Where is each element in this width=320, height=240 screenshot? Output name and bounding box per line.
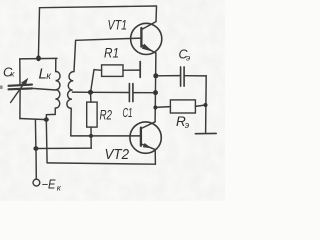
node base line crossing bbox=[89, 134, 93, 138]
wire lower plate to coil tap bbox=[32, 88, 56, 90]
wire Re right lead bbox=[195, 105, 205, 106]
svg-text:R2: R2 bbox=[100, 108, 113, 123]
wire Re left lead bbox=[155, 106, 170, 109]
wire C1 to emitter line bbox=[133, 92, 155, 94]
node Re left bbox=[153, 106, 157, 110]
wire tank left lower bbox=[19, 89, 21, 119]
wire VT2 base bbox=[71, 135, 141, 137]
wire right rail bbox=[205, 76, 208, 133]
svg-text:C1: C1 bbox=[123, 106, 133, 120]
capacitor bar at emitter line bbox=[139, 62, 141, 78]
wire Ce to right rail bbox=[185, 75, 207, 77]
capacitor Ck lower plate bbox=[9, 87, 33, 90]
wire bottom rail bbox=[47, 163, 155, 164]
inductor feedback winding bbox=[67, 40, 76, 136]
node C1 right bbox=[153, 90, 158, 95]
wire tank bottom bbox=[20, 119, 46, 120]
wire R1 right lead bbox=[123, 69, 140, 71]
transistor VT1 bbox=[131, 23, 162, 54]
capacitor C1 plates bbox=[128, 84, 130, 102]
arrow of variable capacitor bbox=[11, 81, 26, 102]
wire winding tap to node bbox=[72, 91, 90, 93]
wire R2 bottom lead bbox=[90, 127, 92, 148]
node -Ek rail bbox=[33, 146, 38, 151]
capacitor Ck upper plate bbox=[9, 85, 33, 86]
terminal -Ek bbox=[33, 179, 40, 186]
wire left drop from top bbox=[38, 8, 39, 59]
svg-text:R1: R1 bbox=[104, 46, 119, 61]
capacitor Ce plates bbox=[180, 67, 182, 86]
wire tank top bbox=[20, 57, 57, 60]
wire tank left upper bbox=[19, 59, 21, 85]
wire VT1 base bbox=[76, 38, 141, 40]
inductor Lk bbox=[46, 59, 60, 120]
node emitter Ce bbox=[153, 73, 158, 78]
wire drop to bottom rail bbox=[45, 120, 48, 163]
terminal bar bbox=[195, 132, 216, 134]
wire drop to -Ek node bbox=[34, 119, 37, 148]
svg-text:VT2: VT2 bbox=[105, 147, 130, 163]
node tank top bbox=[36, 55, 41, 61]
wire R1 left lead bbox=[91, 70, 102, 93]
wire R2 top lead bbox=[90, 92, 92, 102]
resistor Re bbox=[170, 100, 195, 113]
wire -Ek rail bbox=[36, 147, 91, 149]
node Re right rail bbox=[204, 103, 208, 107]
transistor VT2 bbox=[130, 122, 161, 153]
wire to supply terminal bbox=[35, 149, 37, 180]
wire emitter node to Ce bbox=[156, 75, 180, 77]
wire VT2 emitter drop bbox=[154, 150, 156, 165]
node tank bottom bbox=[44, 117, 49, 121]
resistor R2 bbox=[87, 102, 97, 127]
node R1 R2 C1 bbox=[88, 90, 93, 95]
wire emitter-collector vertical bbox=[154, 53, 157, 122]
wire node to C1 bbox=[91, 91, 129, 93]
svg-text:VT1: VT1 bbox=[108, 18, 128, 33]
svg-text:э: э bbox=[186, 52, 190, 62]
edge speck bbox=[0, 86, 3, 89]
svg-text:−E: −E bbox=[42, 178, 57, 192]
wire top supply bbox=[40, 6, 157, 8]
svg-text:э: э bbox=[185, 120, 190, 130]
resistor R1 bbox=[102, 65, 123, 77]
